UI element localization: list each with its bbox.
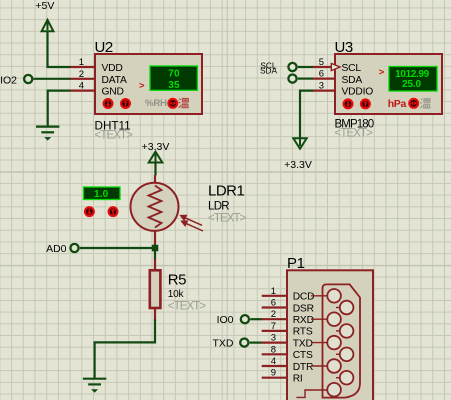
wire TXD to P1 TXD: [250, 342, 262, 344]
LDR1 resistive zigzag: [149, 186, 162, 228]
pin 4 (GND): [71, 89, 96, 91]
svg-text:RTS: RTS: [293, 327, 313, 338]
svg-text:9: 9: [271, 368, 276, 379]
display for LDR (1.0): [84, 187, 121, 216]
terminal SDA: [288, 75, 296, 83]
svg-text:RXD: RXD: [293, 315, 314, 326]
terminal SCL: [288, 63, 296, 71]
P1 pin numbers: [271, 286, 276, 379]
light arrows: [181, 216, 203, 232]
power +3.3V arrow (down, U3): [293, 138, 306, 149]
U2 body: [95, 54, 202, 114]
sensor LDR1: [131, 175, 247, 245]
svg-text:<TEXT>: <TEXT>: [335, 128, 374, 140]
DB9 holes 1-9: [327, 289, 353, 397]
button up: [121, 99, 130, 108]
svg-text:<TEXT>: <TEXT>: [168, 301, 207, 313]
svg-text:LDR1: LDR1: [208, 183, 245, 200]
svg-text:DCD: DCD: [293, 292, 315, 303]
svg-text:1: 1: [79, 57, 84, 68]
junction: [152, 245, 159, 252]
wire SDA to U3: [298, 77, 313, 79]
pin 3 (VDDIO): [313, 89, 335, 91]
wire +5V to U2 pin1: [48, 31, 71, 67]
op U3 BMP180: [313, 39, 442, 140]
wire U2 pin4 to ground: [48, 91, 71, 127]
LDR LCD display: [84, 187, 121, 200]
svg-text:+3.3V: +3.3V: [284, 159, 312, 171]
svg-text:VDD: VDD: [102, 63, 123, 74]
svg-text:SDA: SDA: [260, 66, 278, 76]
op U2 DHT11: [71, 39, 203, 142]
pin 5 (SCL): [313, 66, 335, 68]
button up: [109, 207, 118, 216]
svg-text:1.0: 1.0: [94, 189, 109, 200]
svg-text:8: 8: [271, 344, 276, 355]
svg-text:IO0: IO0: [217, 314, 234, 326]
U3 body: [335, 54, 442, 114]
wire +3.3V to LDR: [154, 163, 156, 176]
svg-text:>: >: [379, 67, 385, 78]
svg-text:3: 3: [319, 81, 324, 92]
pin 1 (VDD): [71, 66, 96, 68]
svg-text:RI: RI: [293, 374, 303, 385]
clock marker on SCL: [331, 63, 340, 70]
svg-text:5: 5: [319, 57, 324, 68]
svg-text:>: >: [139, 80, 145, 91]
button select: [168, 99, 177, 108]
wire IO0 to P1 RXD: [250, 318, 262, 320]
svg-text:SDA: SDA: [342, 75, 363, 86]
U2 LCD display: [150, 66, 197, 90]
svg-text:7: 7: [271, 321, 276, 332]
P1 body: [287, 270, 373, 400]
svg-text:6: 6: [319, 69, 324, 80]
P1 pin names DCD DSR RXD RTS TXD CTS DTR RI: [293, 292, 315, 385]
wire AD0 to junction: [80, 247, 155, 249]
svg-text:3: 3: [271, 333, 276, 344]
button down: [85, 207, 94, 216]
pin 2 (DATA): [71, 78, 96, 80]
U3 LCD display: [389, 67, 437, 92]
svg-text:4: 4: [79, 81, 84, 92]
svg-text:DATA: DATA: [102, 75, 127, 86]
svg-text:hPa: hPa: [388, 98, 407, 110]
R5 bottom pin: [154, 307, 156, 321]
terminal AD0: [70, 244, 78, 252]
svg-text:DTR: DTR: [293, 362, 314, 373]
R5 top pin: [154, 259, 156, 271]
ground (R5): [83, 379, 106, 393]
LDR1 bottom pin: [154, 231, 156, 245]
power +3.3V arrow (up, LDR): [149, 152, 163, 163]
label temperature glyph: [179, 99, 189, 108]
svg-text:25.0: 25.0: [402, 79, 421, 90]
button down: [104, 99, 113, 108]
svg-text:TXD: TXD: [213, 338, 234, 350]
svg-text:4: 4: [271, 356, 276, 367]
LDR1 body: [131, 183, 179, 231]
svg-text:70: 70: [168, 69, 180, 80]
svg-text:GND: GND: [102, 87, 124, 98]
wire IO2 to U2 pin2: [34, 78, 71, 80]
svg-text:AD0: AD0: [46, 243, 67, 255]
svg-text:R5: R5: [168, 271, 186, 288]
wire R5 to ground: [95, 320, 155, 379]
svg-text:LDR: LDR: [208, 201, 229, 213]
svg-text:6: 6: [271, 298, 276, 309]
svg-text:VDDIO: VDDIO: [342, 87, 374, 98]
R5 body: [150, 270, 161, 308]
button down: [344, 100, 353, 109]
svg-text:SCL: SCL: [342, 63, 362, 74]
P1 pins 1,6,2,7,3,8,4,9: [262, 296, 287, 378]
terminal IO2: [24, 75, 32, 83]
svg-text:TXD: TXD: [293, 338, 313, 349]
svg-text:1: 1: [271, 286, 276, 297]
wire junction down to R5: [154, 244, 156, 260]
resistor R5: [150, 259, 207, 321]
svg-text:+5V: +5V: [35, 0, 54, 12]
svg-text:IO2: IO2: [0, 75, 17, 87]
svg-text:<TEXT>: <TEXT>: [208, 213, 247, 225]
power +5V arrow: [42, 20, 54, 32]
terminal TXD: [240, 339, 248, 347]
svg-text:%RH: %RH: [145, 98, 167, 109]
svg-text:DSR: DSR: [293, 303, 314, 314]
LDR1 top pin: [154, 175, 156, 183]
DB9 hole stubs: [296, 296, 339, 398]
connector P1 COMPIM: [262, 255, 373, 400]
button select: [409, 99, 418, 108]
svg-text:35: 35: [168, 80, 180, 91]
ground (U2): [36, 127, 59, 141]
svg-text:<TEXT>: <TEXT>: [95, 130, 134, 142]
button up: [361, 100, 370, 109]
svg-text:2: 2: [79, 69, 84, 80]
svg-text:CTS: CTS: [293, 350, 313, 361]
DB9 connector outline: [323, 284, 361, 397]
label temperature glyph: [420, 99, 430, 108]
pin 6 (SDA): [313, 77, 335, 79]
svg-text:2: 2: [271, 309, 276, 320]
svg-text:10k: 10k: [168, 289, 185, 300]
terminal IO0: [241, 315, 249, 323]
wire U3 pin3 to +3.3V: [300, 91, 313, 139]
wire SCL to U3: [298, 66, 313, 68]
